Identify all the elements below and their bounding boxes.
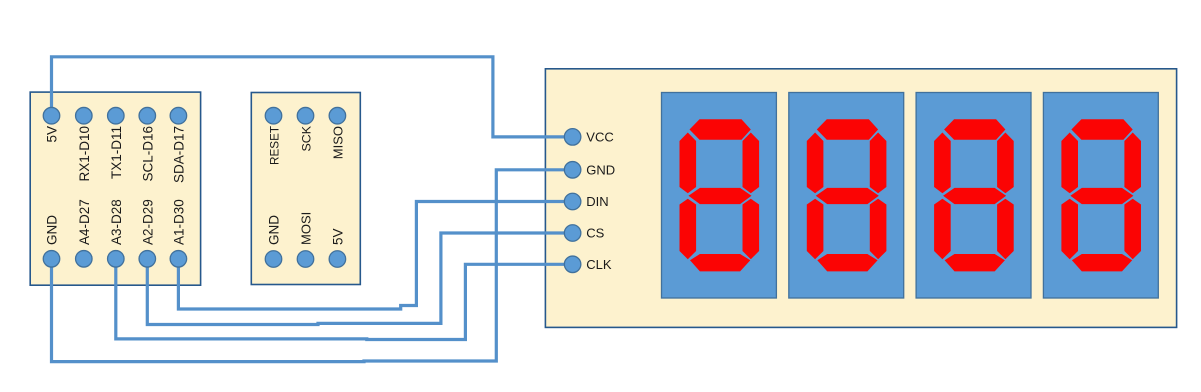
pin GND (left box): [43, 251, 60, 268]
svg-text:SCL-D16: SCL-D16: [140, 126, 155, 182]
pin 5V (middle box): [329, 251, 346, 268]
pin SDA-D17: [170, 107, 187, 124]
pin A1-D30: [170, 251, 187, 268]
pin SCK: [297, 107, 314, 124]
pin A2-D29: [139, 251, 156, 268]
pin A4-D27: [76, 251, 93, 268]
wire A1-D30 to DIN: [178, 202, 572, 310]
svg-text:A2-D29: A2-D29: [140, 199, 155, 245]
svg-text:MISO: MISO: [330, 126, 345, 159]
svg-text:A1-D30: A1-D30: [171, 199, 186, 245]
wire GND to GND: [52, 170, 573, 362]
svg-text:TX1-D11: TX1-D11: [109, 126, 124, 179]
svg-text:CLK: CLK: [586, 257, 612, 272]
svg-text:RX1-D10: RX1-D10: [77, 126, 92, 182]
svg-text:DIN: DIN: [586, 194, 608, 209]
digit 4 background: [1043, 93, 1158, 299]
svg-text:A3-D28: A3-D28: [109, 199, 124, 245]
svg-text:5V: 5V: [45, 126, 60, 143]
digit 2 background: [789, 93, 904, 299]
digit 1 background: [662, 93, 777, 299]
pin 5V: [43, 107, 60, 124]
microcontroller module U1 (left header box): [30, 92, 200, 285]
pin MISO: [329, 107, 346, 124]
wire A3-D28 to CLK: [116, 259, 573, 340]
svg-text:CS: CS: [586, 226, 604, 241]
wire 5V to VCC: [52, 57, 573, 137]
svg-text:GND: GND: [586, 162, 615, 177]
pin TX1-D11: [108, 107, 125, 124]
digit 4 segments: [1061, 119, 1141, 271]
svg-text:MOSI: MOSI: [299, 212, 314, 245]
digit 3 background: [916, 93, 1031, 299]
digit 1 segments: [680, 119, 760, 271]
svg-text:SDA-D17: SDA-D17: [171, 126, 186, 183]
svg-text:A4-D27: A4-D27: [77, 199, 92, 245]
pin DIN: [564, 193, 581, 210]
pin SCL-D16: [139, 107, 156, 124]
7-segment display module U3 (big box): [545, 69, 1176, 328]
svg-text:GND: GND: [45, 215, 60, 245]
wire A2-D29 to CS: [147, 233, 572, 325]
pin CLK: [564, 256, 581, 273]
pin A3-D28: [108, 251, 125, 268]
pin RESET: [265, 107, 282, 124]
pin CS: [564, 225, 581, 242]
pin MOSI: [297, 251, 314, 268]
digit 3 segments: [934, 119, 1014, 271]
svg-text:SCK: SCK: [300, 125, 314, 151]
digit 2 segments: [807, 119, 887, 271]
pin VCC: [564, 129, 581, 146]
pin GND (middle box): [265, 251, 282, 268]
svg-text:RESET: RESET: [269, 126, 282, 165]
svg-text:GND: GND: [267, 215, 282, 245]
svg-text:VCC: VCC: [586, 129, 613, 144]
svg-text:5V: 5V: [330, 228, 345, 245]
ICSP header module U2 (middle box): [251, 93, 360, 285]
pin RX1-D10: [76, 107, 93, 124]
pin GND (display): [564, 162, 581, 179]
